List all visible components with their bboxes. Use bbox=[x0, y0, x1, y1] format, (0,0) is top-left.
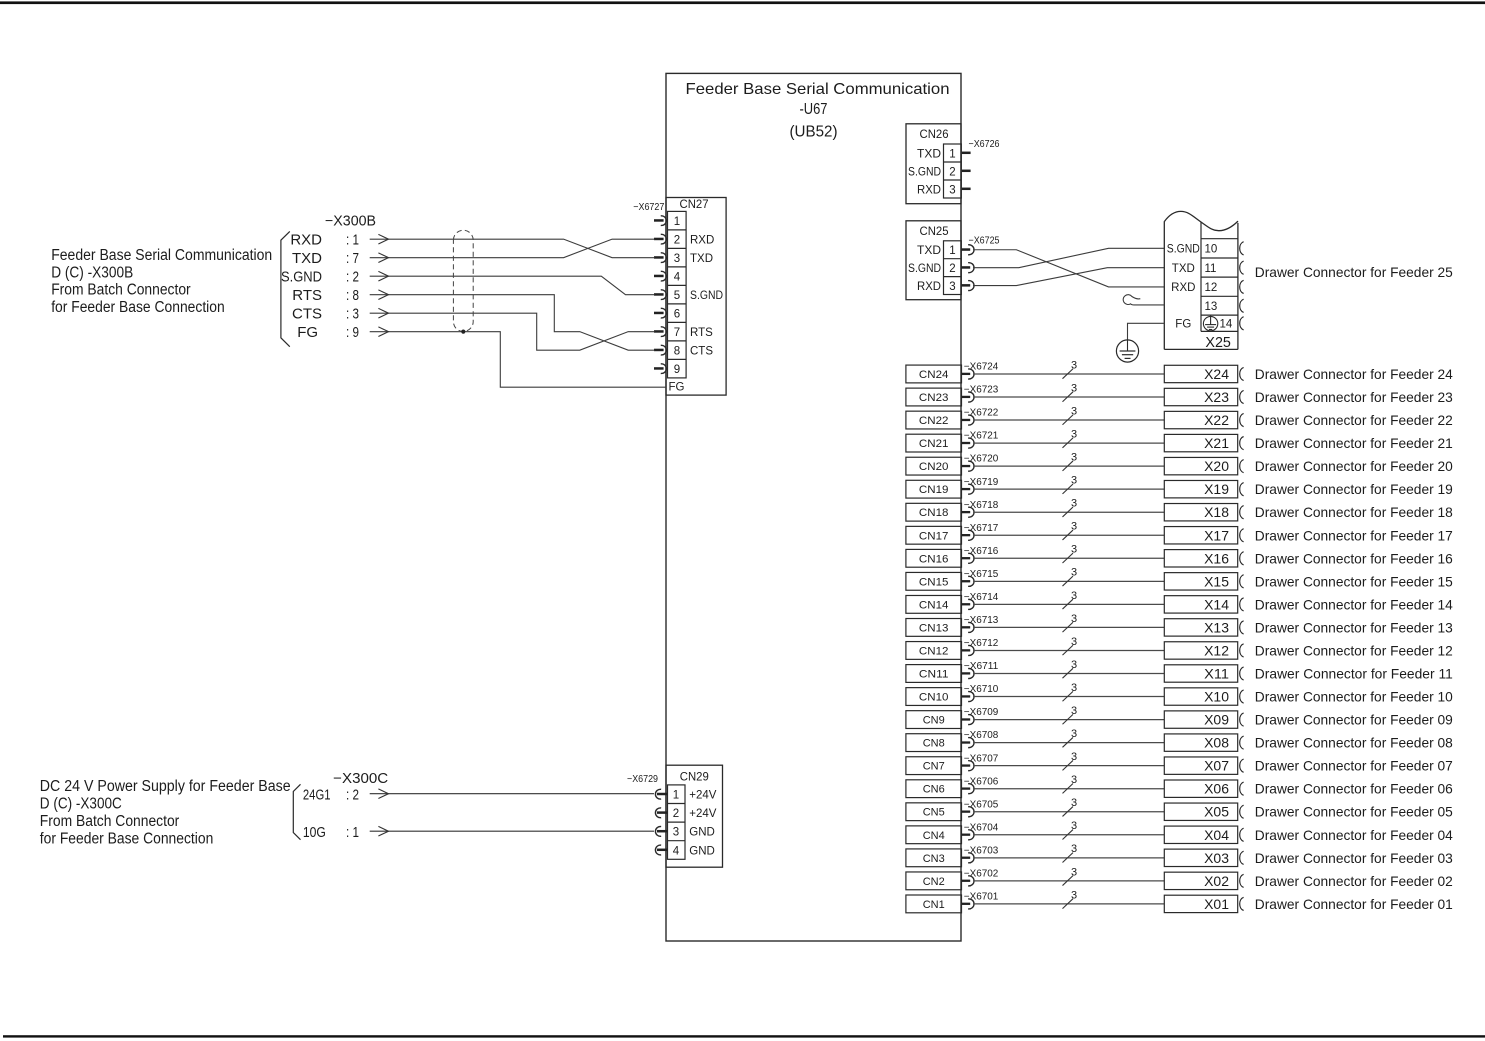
svg-text:CN16: CN16 bbox=[919, 553, 949, 565]
svg-text:CTS: CTS bbox=[292, 305, 322, 322]
svg-text:X24: X24 bbox=[1204, 366, 1229, 382]
svg-text:CN15: CN15 bbox=[919, 576, 949, 588]
svg-text:3: 3 bbox=[1071, 405, 1077, 417]
svg-text:: 7: : 7 bbox=[346, 250, 359, 267]
svg-text:: 2: : 2 bbox=[346, 268, 359, 285]
svg-text:Drawer Connector for Feeder 22: Drawer Connector for Feeder 22 bbox=[1255, 412, 1453, 428]
svg-text:3: 3 bbox=[1071, 452, 1077, 464]
svg-text:: 8: : 8 bbox=[346, 287, 359, 304]
svg-text:X01: X01 bbox=[1204, 896, 1229, 912]
svg-text:−X6702: −X6702 bbox=[964, 868, 999, 879]
svg-text:X05: X05 bbox=[1204, 804, 1229, 820]
svg-text:for Feeder Base Connection: for Feeder Base Connection bbox=[51, 299, 225, 316]
svg-text:S.GND: S.GND bbox=[281, 268, 322, 285]
svg-text:CN5: CN5 bbox=[923, 807, 945, 819]
svg-text:FG: FG bbox=[297, 324, 318, 341]
svg-text:CN17: CN17 bbox=[919, 530, 949, 542]
svg-text:7: 7 bbox=[674, 327, 680, 339]
svg-text:X20: X20 bbox=[1204, 458, 1229, 474]
svg-text:RXD: RXD bbox=[290, 231, 322, 248]
svg-text:−X6725: −X6725 bbox=[969, 236, 1000, 247]
svg-text:TXD: TXD bbox=[917, 245, 941, 257]
svg-text:12: 12 bbox=[1205, 282, 1218, 294]
svg-text:X04: X04 bbox=[1204, 827, 1229, 843]
svg-text:Drawer Connector for Feeder 12: Drawer Connector for Feeder 12 bbox=[1255, 642, 1453, 658]
svg-text:Drawer Connector for Feeder 13: Drawer Connector for Feeder 13 bbox=[1255, 619, 1453, 635]
svg-text:Drawer Connector for Feeder 15: Drawer Connector for Feeder 15 bbox=[1255, 573, 1453, 589]
svg-text:Drawer Connector for Feeder 02: Drawer Connector for Feeder 02 bbox=[1255, 873, 1453, 889]
svg-text:−X6729: −X6729 bbox=[627, 774, 658, 785]
svg-text:S.GND: S.GND bbox=[908, 263, 941, 275]
svg-text:4: 4 bbox=[673, 845, 680, 857]
svg-text:−X6717: −X6717 bbox=[964, 523, 999, 534]
svg-text:Drawer Connector for Feeder 03: Drawer Connector for Feeder 03 bbox=[1255, 850, 1453, 866]
svg-text:3: 3 bbox=[1071, 682, 1077, 694]
svg-text:: 3: : 3 bbox=[346, 305, 359, 322]
svg-text:: 1: : 1 bbox=[346, 231, 359, 248]
svg-text:+24V: +24V bbox=[689, 808, 717, 820]
svg-text:X19: X19 bbox=[1204, 481, 1229, 497]
svg-text:D (C) -X300B: D (C) -X300B bbox=[51, 264, 133, 281]
svg-text:Drawer Connector for Feeder 05: Drawer Connector for Feeder 05 bbox=[1255, 804, 1453, 820]
svg-text:−X6709: −X6709 bbox=[964, 707, 999, 718]
svg-text:−X6724: −X6724 bbox=[964, 362, 999, 373]
svg-text:11: 11 bbox=[1205, 263, 1217, 275]
svg-text:1: 1 bbox=[673, 790, 679, 802]
svg-text:1: 1 bbox=[674, 216, 680, 228]
svg-text:RXD: RXD bbox=[917, 281, 941, 293]
svg-text:Drawer Connector for Feeder 14: Drawer Connector for Feeder 14 bbox=[1255, 596, 1453, 612]
svg-text:24G1: 24G1 bbox=[303, 786, 331, 803]
svg-text:CN1: CN1 bbox=[923, 899, 945, 911]
svg-text:CN22: CN22 bbox=[919, 415, 949, 427]
svg-text:: 9: : 9 bbox=[346, 324, 359, 341]
svg-text:−X6712: −X6712 bbox=[964, 638, 999, 649]
svg-text:CN10: CN10 bbox=[919, 692, 949, 704]
svg-text:X17: X17 bbox=[1204, 527, 1229, 543]
svg-text:−X6711: −X6711 bbox=[964, 661, 999, 672]
svg-text:−X6706: −X6706 bbox=[964, 776, 999, 787]
svg-text:X12: X12 bbox=[1204, 642, 1229, 658]
svg-text:Drawer Connector for Feeder 25: Drawer Connector for Feeder 25 bbox=[1255, 264, 1453, 280]
svg-text:1: 1 bbox=[949, 245, 955, 257]
svg-text:3: 3 bbox=[1071, 613, 1077, 625]
svg-text:RXD: RXD bbox=[690, 234, 714, 246]
svg-text:3: 3 bbox=[949, 184, 955, 196]
svg-text:CN11: CN11 bbox=[919, 669, 949, 681]
svg-text:14: 14 bbox=[1220, 319, 1233, 331]
svg-text:2: 2 bbox=[674, 234, 680, 246]
svg-text:TXD: TXD bbox=[292, 250, 322, 267]
svg-text:DC 24 V Power Supply for Feede: DC 24 V Power Supply for Feeder Base bbox=[40, 778, 291, 795]
svg-text:CN23: CN23 bbox=[919, 392, 949, 404]
svg-text:X23: X23 bbox=[1204, 389, 1229, 405]
svg-text:X25: X25 bbox=[1205, 334, 1231, 351]
svg-text:From Batch Connector: From Batch Connector bbox=[40, 813, 180, 830]
svg-text:GND: GND bbox=[689, 845, 715, 857]
svg-text:S.GND: S.GND bbox=[908, 166, 941, 178]
svg-text:3: 3 bbox=[1071, 751, 1077, 763]
svg-text:CN27: CN27 bbox=[680, 199, 709, 211]
svg-text:X06: X06 bbox=[1204, 781, 1229, 797]
svg-text:Drawer Connector for Feeder 06: Drawer Connector for Feeder 06 bbox=[1255, 781, 1453, 797]
svg-text:CN26: CN26 bbox=[920, 129, 949, 141]
svg-text:−X6705: −X6705 bbox=[964, 799, 999, 810]
svg-text:X14: X14 bbox=[1204, 596, 1229, 612]
svg-text:Drawer Connector for Feeder 04: Drawer Connector for Feeder 04 bbox=[1255, 827, 1453, 843]
svg-text:3: 3 bbox=[1071, 359, 1077, 371]
svg-text:CN13: CN13 bbox=[919, 622, 949, 634]
svg-text:−X6718: −X6718 bbox=[964, 500, 999, 511]
svg-text:TXD: TXD bbox=[690, 253, 713, 265]
svg-text:X22: X22 bbox=[1204, 412, 1229, 428]
svg-text:RXD: RXD bbox=[1171, 282, 1195, 294]
svg-text:+24V: +24V bbox=[689, 790, 717, 802]
svg-text:CN8: CN8 bbox=[923, 738, 945, 750]
svg-text:3: 3 bbox=[949, 281, 955, 293]
svg-text:S.GND: S.GND bbox=[690, 290, 723, 302]
svg-text:CN24: CN24 bbox=[919, 369, 949, 381]
svg-text:−X6721: −X6721 bbox=[964, 431, 999, 442]
svg-text:CN14: CN14 bbox=[919, 599, 949, 611]
svg-text:X08: X08 bbox=[1204, 735, 1229, 751]
svg-text:X13: X13 bbox=[1204, 619, 1229, 635]
svg-text:Drawer Connector for Feeder 21: Drawer Connector for Feeder 21 bbox=[1255, 435, 1453, 451]
svg-text:3: 3 bbox=[1071, 498, 1077, 510]
svg-text:3: 3 bbox=[1071, 590, 1077, 602]
svg-text:−X6704: −X6704 bbox=[964, 822, 999, 833]
svg-text:−X6710: −X6710 bbox=[964, 684, 999, 695]
svg-text:−X6708: −X6708 bbox=[964, 730, 999, 741]
svg-text:−X6716: −X6716 bbox=[964, 546, 999, 557]
svg-text:−X6701: −X6701 bbox=[964, 892, 999, 903]
svg-text:Feeder Base Serial Communicati: Feeder Base Serial Communication bbox=[51, 247, 272, 264]
svg-text:X03: X03 bbox=[1204, 850, 1229, 866]
svg-text:TXD: TXD bbox=[1172, 263, 1195, 275]
svg-text:CN2: CN2 bbox=[923, 876, 945, 888]
svg-text:X18: X18 bbox=[1204, 504, 1229, 520]
svg-text:FG: FG bbox=[1175, 319, 1191, 331]
svg-text:X10: X10 bbox=[1204, 689, 1229, 705]
svg-text:RTS: RTS bbox=[292, 287, 322, 304]
svg-text:3: 3 bbox=[673, 827, 679, 839]
svg-text:X11: X11 bbox=[1204, 666, 1229, 682]
svg-text:−X6715: −X6715 bbox=[964, 569, 999, 580]
svg-text:X02: X02 bbox=[1204, 873, 1229, 889]
svg-text:4: 4 bbox=[674, 271, 681, 283]
svg-text:Drawer Connector for Feeder 17: Drawer Connector for Feeder 17 bbox=[1255, 527, 1453, 543]
svg-text:3: 3 bbox=[1071, 567, 1077, 579]
svg-text:3: 3 bbox=[1071, 843, 1077, 855]
svg-text:Drawer Connector for Feeder 19: Drawer Connector for Feeder 19 bbox=[1255, 481, 1453, 497]
svg-text:Drawer Connector for Feeder 07: Drawer Connector for Feeder 07 bbox=[1255, 758, 1453, 774]
svg-text:3: 3 bbox=[1071, 659, 1077, 671]
svg-text:RXD: RXD bbox=[917, 184, 941, 196]
svg-text:−X6722: −X6722 bbox=[964, 408, 999, 419]
svg-text:Drawer Connector for Feeder 10: Drawer Connector for Feeder 10 bbox=[1255, 689, 1453, 705]
svg-text:FG: FG bbox=[669, 382, 685, 394]
svg-text:: 1: : 1 bbox=[346, 824, 359, 841]
svg-text:Drawer Connector for Feeder 11: Drawer Connector for Feeder 11 bbox=[1255, 666, 1453, 682]
svg-text:D (C) -X300C: D (C) -X300C bbox=[40, 796, 122, 813]
svg-text:3: 3 bbox=[1071, 429, 1077, 441]
svg-text:10: 10 bbox=[1205, 244, 1218, 256]
svg-text:−X6727: −X6727 bbox=[633, 202, 664, 213]
svg-text:CN21: CN21 bbox=[919, 438, 949, 450]
svg-text:−X6707: −X6707 bbox=[964, 753, 999, 764]
svg-text:CN12: CN12 bbox=[919, 645, 949, 657]
svg-text:3: 3 bbox=[1071, 820, 1077, 832]
svg-text:CN20: CN20 bbox=[919, 461, 949, 473]
svg-text:9: 9 bbox=[674, 364, 680, 376]
svg-text:Drawer Connector for Feeder 20: Drawer Connector for Feeder 20 bbox=[1255, 458, 1453, 474]
svg-text:From Batch Connector: From Batch Connector bbox=[51, 282, 191, 299]
svg-text:CN25: CN25 bbox=[920, 226, 949, 238]
svg-text:CN3: CN3 bbox=[923, 853, 945, 865]
svg-text:Drawer Connector for Feeder 09: Drawer Connector for Feeder 09 bbox=[1255, 712, 1453, 728]
svg-text:(UB52): (UB52) bbox=[790, 124, 838, 141]
svg-text:X15: X15 bbox=[1204, 573, 1229, 589]
svg-text:Drawer Connector for Feeder 01: Drawer Connector for Feeder 01 bbox=[1255, 896, 1453, 912]
svg-text:Drawer Connector for Feeder 23: Drawer Connector for Feeder 23 bbox=[1255, 389, 1453, 405]
svg-text:Drawer Connector for Feeder 08: Drawer Connector for Feeder 08 bbox=[1255, 735, 1453, 751]
svg-text:6: 6 bbox=[674, 308, 680, 320]
svg-text:3: 3 bbox=[1071, 728, 1077, 740]
svg-text:Drawer Connector for Feeder 16: Drawer Connector for Feeder 16 bbox=[1255, 550, 1453, 566]
svg-text:for Feeder Base Connection: for Feeder Base Connection bbox=[40, 831, 214, 848]
svg-text:2: 2 bbox=[949, 166, 955, 178]
svg-text:3: 3 bbox=[1071, 382, 1077, 394]
svg-text:3: 3 bbox=[1071, 889, 1077, 901]
svg-text:CN18: CN18 bbox=[919, 507, 949, 519]
svg-text:Drawer Connector for Feeder 24: Drawer Connector for Feeder 24 bbox=[1255, 366, 1453, 382]
svg-text:−X6703: −X6703 bbox=[964, 845, 999, 856]
svg-text:-U67: -U67 bbox=[800, 101, 828, 118]
svg-text:Drawer Connector for Feeder 18: Drawer Connector for Feeder 18 bbox=[1255, 504, 1453, 520]
svg-text:5: 5 bbox=[674, 290, 680, 302]
svg-text:: 2: : 2 bbox=[346, 786, 359, 803]
svg-text:3: 3 bbox=[1071, 544, 1077, 556]
svg-text:13: 13 bbox=[1205, 301, 1218, 313]
svg-text:CN19: CN19 bbox=[919, 484, 949, 496]
svg-text:CN29: CN29 bbox=[680, 771, 709, 783]
svg-text:−X6720: −X6720 bbox=[964, 454, 999, 465]
svg-text:−X6719: −X6719 bbox=[964, 477, 999, 488]
svg-text:−X6726: −X6726 bbox=[969, 139, 1000, 150]
svg-text:3: 3 bbox=[1071, 866, 1077, 878]
svg-text:2: 2 bbox=[673, 808, 679, 820]
svg-text:CN6: CN6 bbox=[923, 784, 945, 796]
svg-text:CN9: CN9 bbox=[923, 715, 945, 727]
svg-text:X16: X16 bbox=[1204, 550, 1229, 566]
svg-text:3: 3 bbox=[674, 253, 680, 265]
svg-text:3: 3 bbox=[1071, 797, 1077, 809]
svg-text:−X300C: −X300C bbox=[333, 771, 388, 787]
svg-text:Feeder Base Serial Communicati: Feeder Base Serial Communication bbox=[686, 81, 950, 98]
svg-text:−X300B: −X300B bbox=[325, 214, 376, 230]
svg-text:−X6723: −X6723 bbox=[964, 385, 999, 396]
svg-text:2: 2 bbox=[949, 263, 955, 275]
svg-text:8: 8 bbox=[674, 345, 680, 357]
svg-text:−X6714: −X6714 bbox=[964, 592, 999, 603]
svg-text:1: 1 bbox=[949, 148, 955, 160]
svg-text:CTS: CTS bbox=[690, 345, 713, 357]
svg-text:TXD: TXD bbox=[917, 148, 941, 160]
svg-text:X21: X21 bbox=[1204, 435, 1229, 451]
svg-text:X07: X07 bbox=[1204, 758, 1229, 774]
svg-text:3: 3 bbox=[1071, 705, 1077, 717]
svg-text:3: 3 bbox=[1071, 475, 1077, 487]
svg-text:GND: GND bbox=[689, 827, 715, 839]
svg-text:CN7: CN7 bbox=[923, 761, 945, 773]
svg-text:3: 3 bbox=[1071, 521, 1077, 533]
svg-text:X09: X09 bbox=[1204, 712, 1229, 728]
svg-text:S.GND: S.GND bbox=[1167, 244, 1200, 256]
svg-text:RTS: RTS bbox=[690, 327, 713, 339]
svg-text:CN4: CN4 bbox=[923, 830, 945, 842]
svg-text:3: 3 bbox=[1071, 636, 1077, 648]
svg-text:−X6713: −X6713 bbox=[964, 615, 999, 626]
svg-text:10G: 10G bbox=[303, 824, 326, 841]
svg-text:3: 3 bbox=[1071, 774, 1077, 786]
